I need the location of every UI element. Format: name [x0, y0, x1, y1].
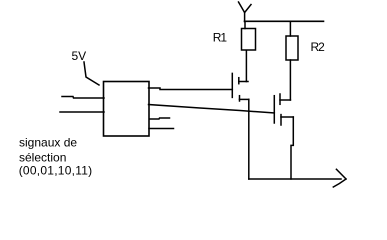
- resistor R1: [242, 29, 256, 51]
- wire Q2 source to output rail: [291, 117, 293, 179]
- Q2 drain plate: [279, 94, 281, 104]
- input wire B: [60, 111, 104, 113]
- wire U1 to Q1 gate: [149, 88, 233, 90]
- Q2 gate bar: [273, 96, 275, 123]
- svg-text:(00,01,10,11): (00,01,10,11): [19, 164, 93, 178]
- antenna right arm: [245, 5, 251, 13]
- wire U1 to Q2 gate: [149, 105, 275, 114]
- output arrow head: [333, 169, 346, 187]
- Q2 source wire: [281, 116, 293, 118]
- svg-text:sélection: sélection: [19, 150, 66, 164]
- transistor Q2: [274, 94, 293, 125]
- wire output rail: [249, 178, 341, 180]
- Q1 source wire: [240, 98, 249, 100]
- antenna left arm: [239, 2, 245, 12]
- IC U1 selection box: [104, 82, 150, 137]
- wire rail to R1: [244, 22, 246, 29]
- stub output D: [149, 128, 174, 130]
- Q2 drain wire: [280, 99, 290, 101]
- resistor R2: [286, 36, 298, 60]
- input wire A: [62, 97, 104, 99]
- Q2 source plate: [280, 115, 282, 125]
- wire rail to R2: [289, 22, 291, 37]
- svg-text:R2: R2: [311, 40, 326, 54]
- svg-text:signaux de: signaux de: [19, 136, 77, 150]
- transistor Q1: [232, 73, 249, 101]
- wire R2 to Q2 drain: [289, 60, 291, 100]
- Q1 drain plate: [238, 78, 240, 84]
- wire top rail: [245, 20, 324, 22]
- wire R1 to Q1 drain: [245, 51, 247, 82]
- antenna feed wire: [244, 12, 246, 22]
- Q1 source plate: [239, 96, 241, 101]
- stub output C: [150, 118, 170, 119]
- svg-text:5V: 5V: [72, 49, 87, 63]
- svg-text:R1: R1: [213, 31, 228, 45]
- wire 5V to U1: [84, 62, 99, 85]
- Q1 gate bar: [231, 73, 233, 97]
- antenna: [239, 2, 252, 22]
- wire Q1 source to output rail: [248, 99, 250, 179]
- Q1 drain wire: [239, 81, 248, 83]
